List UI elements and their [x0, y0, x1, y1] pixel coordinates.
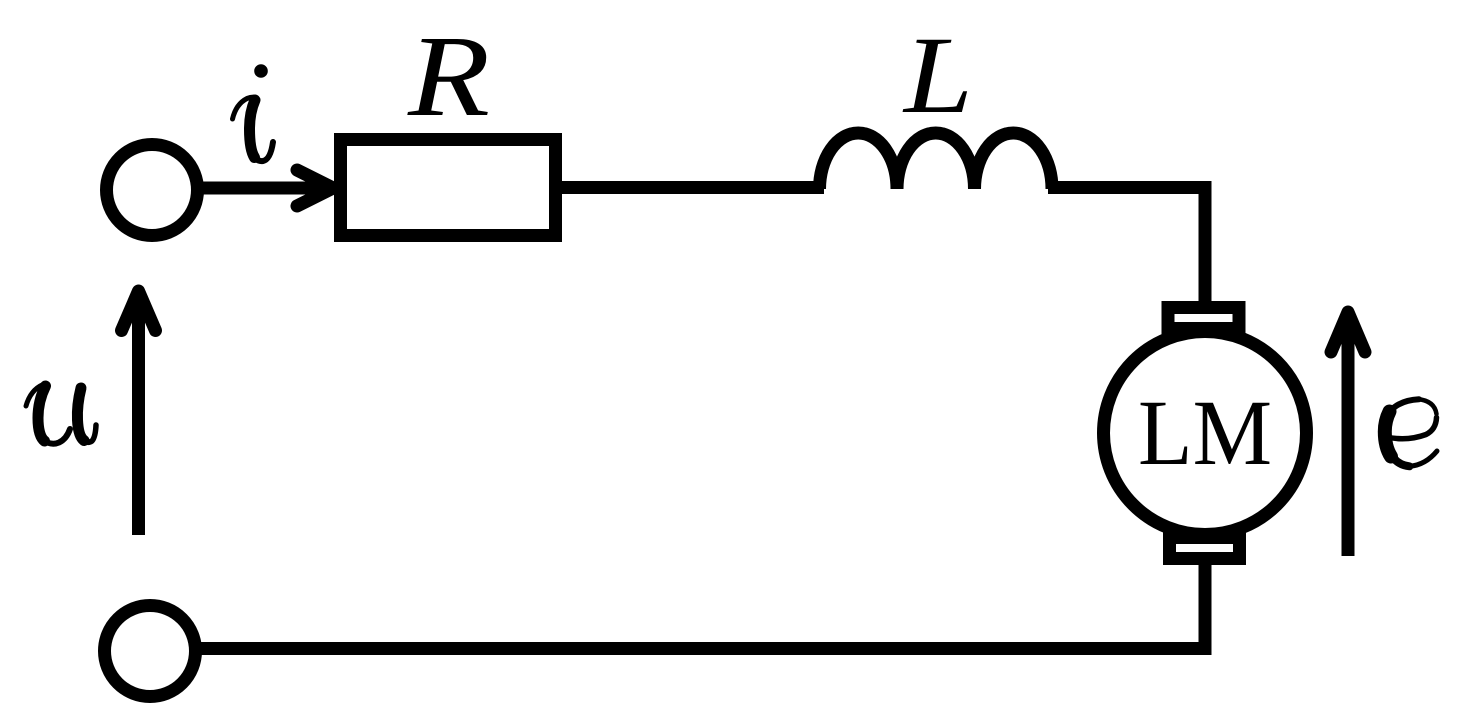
svg-text:LM: LM [1138, 382, 1272, 485]
svg-text:L: L [902, 14, 973, 136]
svg-text:R: R [407, 13, 490, 141]
